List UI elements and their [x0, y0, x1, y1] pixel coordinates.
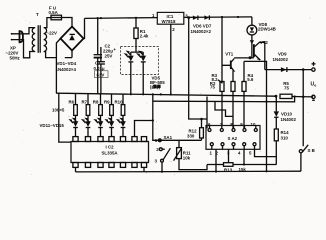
- transistor VT2: [250, 40, 268, 70]
- svg-text:VD10: VD10: [281, 111, 293, 116]
- svg-text:1N4002×4: 1N4002×4: [56, 67, 77, 72]
- label XP ~220V 50Hz: [6, 45, 21, 60]
- junction dot VT2 base: [249, 56, 252, 59]
- diode VD7: [204, 15, 209, 19]
- junction dot contact3 rail: [161, 171, 163, 173]
- LED VD12: [83, 119, 91, 137]
- primary coil: [32, 28, 35, 52]
- LED VD5 right: [138, 52, 146, 95]
- junction dot pin2 rail: [170, 93, 172, 95]
- junction dot VD5 right on rail: [142, 93, 144, 95]
- svg-text:75: 75: [284, 86, 289, 91]
- resistor R2 box: [231, 71, 235, 128]
- LED VD13: [95, 119, 103, 137]
- junction dot emitter rail B: [265, 101, 267, 103]
- junction dot VD10 top: [275, 95, 278, 98]
- svg-text:VD6 VD7: VD6 VD7: [193, 24, 212, 29]
- svg-text:T: T: [36, 12, 39, 17]
- IC2 bottom pins: [73, 163, 147, 168]
- resistor R14 310: [274, 129, 289, 165]
- IC1 W7818: [152, 12, 188, 32]
- dual LED VD5 dashed box: [121, 47, 159, 75]
- diode VD10 1N4002: [274, 96, 297, 129]
- svg-text:~22V: ~22V: [47, 30, 57, 35]
- core: [38, 25, 40, 53]
- svg-text:5.6: 5.6: [247, 77, 254, 82]
- labels R6 R7 R8 R9 R10: [69, 99, 124, 104]
- plug XP: [11, 33, 13, 35]
- svg-text:75: 75: [210, 85, 215, 90]
- wire bridge bottom stub: [71, 51, 73, 58]
- svg-text:25V: 25V: [105, 54, 113, 59]
- SA2 top contacts: [208, 129, 211, 132]
- label VD6 VD7 1N4002x2: [191, 24, 212, 35]
- svg-text:63V: 63V: [97, 72, 105, 77]
- svg-text:S A2: S A2: [228, 136, 238, 141]
- svg-text:2.4k: 2.4k: [140, 34, 149, 39]
- ground rail A: [56, 93, 276, 96]
- wire plug to transformer primary top: [21, 28, 35, 34]
- svg-text:10k: 10k: [183, 156, 191, 161]
- svg-text:5: 5: [249, 150, 252, 155]
- svg-text:R10: R10: [115, 99, 124, 104]
- rheostat R11 10k: [174, 140, 207, 169]
- svg-text:3: 3: [155, 158, 158, 163]
- svg-text:220µ+: 220µ+: [103, 47, 116, 54]
- switch SA2: [206, 122, 260, 156]
- wire rail to IC2 top left: [59, 93, 71, 142]
- junction dot plus branch: [302, 68, 305, 71]
- diode VD9 1N4002: [273, 51, 289, 72]
- IC2 top pins: [73, 137, 147, 142]
- svg-text:Uo: Uo: [311, 82, 318, 88]
- wire secondary top to fuse: [44, 18, 51, 28]
- wire secondary bottom to bridge bottom: [44, 52, 72, 58]
- resistor R5 75: [280, 81, 292, 99]
- svg-text:2DW14B: 2DW14B: [258, 27, 276, 32]
- svg-text:R9: R9: [104, 99, 110, 104]
- junction dot rail B to rail A: [294, 95, 296, 97]
- resistor R8: [99, 94, 103, 122]
- resistor R7: [86, 94, 90, 122]
- wire VT2 emitter to rail B: [244, 61, 267, 171]
- junction dot riser top: [221, 16, 223, 18]
- capacitor C1: [94, 47, 109, 94]
- wire SA1 contact3 to bottom rail: [161, 162, 163, 172]
- junction dot SB rail A crossing: [302, 96, 305, 99]
- svg-text:4: 4: [238, 150, 241, 155]
- diode VD6: [193, 16, 198, 20]
- wire SA2 pin3 down to R13 line: [228, 149, 230, 162]
- svg-text:1: 1: [210, 150, 213, 155]
- resistor R3 riser and VT1 base wire: [222, 17, 230, 82]
- wire VD9 line to plus terminal: [265, 69, 312, 71]
- junction dot after IC1 pin3: [187, 16, 190, 19]
- svg-text:2: 2: [156, 147, 159, 152]
- wire node line x152 down to SA1: [153, 94, 159, 140]
- IC2 SL335A: [71, 142, 149, 163]
- junction dot VD5 left on rail: [130, 93, 132, 95]
- label VD1~VD4 1N4002x4: [56, 61, 77, 72]
- svg-text:330: 330: [187, 133, 195, 138]
- svg-text:SA1: SA1: [164, 135, 173, 140]
- LED VD11: [70, 119, 78, 137]
- svg-text:0.01µ: 0.01µ: [94, 66, 106, 71]
- scan speckle noise: [16, 14, 311, 183]
- minus terminal: [312, 95, 315, 100]
- DC top rail: [85, 17, 158, 20]
- wire IC2 bottom pin2 to bottom rail: [75, 167, 77, 172]
- svg-text:VT1: VT1: [225, 52, 234, 57]
- secondary coil: [44, 28, 47, 52]
- junction dot rail x160.8: [160, 93, 162, 95]
- svg-text:BF-505: BF-505: [150, 80, 165, 85]
- LED VD5 left: [125, 52, 133, 95]
- resistor R3 box: [220, 82, 224, 92]
- wire R12 bottom to SA1 node: [158, 139, 201, 141]
- switch SA1: [155, 135, 173, 164]
- wire fuse to bridge top: [62, 18, 73, 27]
- rail B staircase to SA2 pin8: [215, 101, 233, 116]
- switch SB: [299, 70, 315, 172]
- VD5 internal wiring: [131, 52, 143, 55]
- wire R5 to minus terminal: [292, 96, 313, 98]
- svg-text:C1: C1: [95, 60, 101, 65]
- wire SA2 pin2 to bottom rail: [215, 149, 217, 171]
- label VD5: [150, 75, 165, 89]
- LED VD14: [106, 119, 114, 137]
- sense rail B: [153, 97, 295, 102]
- resistor R4 5.6: [242, 61, 254, 128]
- wire plug to transformer primary bottom: [21, 40, 35, 58]
- svg-text:1N4002: 1N4002: [281, 117, 297, 122]
- svg-text:15k: 15k: [239, 167, 247, 172]
- capacitor C2: [94, 18, 117, 94]
- svg-text:10: 10: [251, 122, 256, 127]
- junction dot R12 top: [200, 118, 203, 121]
- SA2 bottom contacts: [210, 143, 213, 146]
- junction dot rail B start: [152, 93, 154, 95]
- resistor R6: [74, 94, 78, 122]
- junction dot rail x238: [237, 16, 239, 18]
- svg-text:2: 2: [172, 27, 175, 32]
- wire VD6 junction down to R12 area: [189, 18, 207, 129]
- junction dots top rail: [97, 17, 99, 19]
- wire bridge left corner down to ground rail: [56, 39, 60, 94]
- svg-text:1N4002: 1N4002: [273, 57, 289, 62]
- IC1 pin2 wire to ground rail: [170, 24, 172, 94]
- svg-text:I C2: I C2: [106, 144, 115, 149]
- svg-text:50Hz: 50Hz: [10, 56, 21, 61]
- svg-text:S B: S B: [308, 148, 315, 153]
- svg-text:R6: R6: [69, 99, 75, 104]
- svg-text:VD9: VD9: [278, 51, 287, 56]
- wire IC2 bottom pin8 to bottom rail: [143, 167, 145, 171]
- resistor R13 15k: [207, 163, 276, 173]
- svg-text:R7: R7: [82, 99, 88, 104]
- zener VD8 2DW14B: [247, 17, 276, 58]
- bridge inner diode: [69, 35, 75, 41]
- svg-text:R8: R8: [93, 99, 99, 104]
- junction dot pin2 bottom rail: [215, 170, 217, 172]
- plus terminal: [312, 62, 316, 71]
- resistor R10: [121, 94, 125, 121]
- svg-text:310: 310: [281, 135, 289, 140]
- junction dot pin4 R13 line: [243, 163, 245, 165]
- transistor VT1: [225, 52, 250, 72]
- svg-text:1N4002×2: 1N4002×2: [191, 29, 212, 34]
- transformer T: [32, 12, 46, 53]
- wire SA2 pin4 down to R13 line: [243, 149, 245, 164]
- resistor R1 2.4k: [134, 18, 149, 52]
- svg-text:SL335A: SL335A: [102, 151, 119, 156]
- wire SA2 pin5 to VD10 line: [255, 149, 277, 156]
- LED VD15: [118, 119, 126, 137]
- resistor R3 bottom to rail: [221, 91, 223, 125]
- svg-text:W7818: W7818: [162, 19, 176, 24]
- resistor R12 330: [187, 119, 203, 140]
- svg-text:0.5A: 0.5A: [49, 10, 59, 15]
- bottom rail: [76, 170, 302, 173]
- svg-text:VD1~VD4: VD1~VD4: [57, 61, 77, 66]
- svg-text:VD11~VD15: VD11~VD15: [40, 123, 65, 128]
- fuse FU 0.5A: [49, 6, 62, 20]
- bridge rectifier VD1~VD4: [61, 27, 84, 51]
- wire bridge right corner up to DC rail: [84, 18, 85, 38]
- wire IC2 pin8 top riser to node: [135, 121, 154, 137]
- resistor R9: [110, 94, 114, 121]
- label R3 8.2 R2 75: [210, 73, 223, 90]
- svg-text:R13: R13: [224, 167, 233, 172]
